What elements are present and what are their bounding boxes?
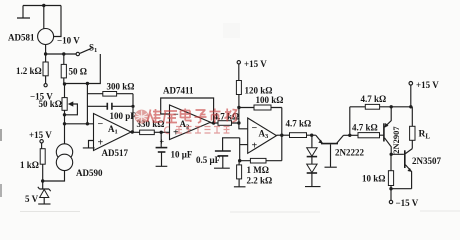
svg-text:4.7 kΩ: 4.7 kΩ — [352, 123, 378, 133]
node junction A2 feedback to output — [212, 121, 215, 124]
diode D1 — [307, 135, 317, 156]
svg-text:1 MΩ: 1 MΩ — [247, 165, 269, 175]
switch S1 — [65, 43, 101, 84]
wire feedback top rail — [87, 93, 133, 95]
svg-text:AD517: AD517 — [102, 148, 129, 158]
resistor 1 kOhm — [20, 143, 45, 181]
wire +15V to rail — [410, 85, 412, 107]
resistor 50 Ohm — [61, 54, 87, 84]
node junction rail right end — [409, 105, 412, 108]
svg-text:+: + — [98, 138, 104, 149]
terminal +15V (AD590 branch) — [29, 130, 52, 143]
voltage reference AD581 — [8, 29, 54, 45]
resistor 330 kOhm — [137, 119, 170, 135]
resistor 300 kOhm — [103, 82, 135, 97]
node junction A3 output — [280, 134, 283, 137]
wire A3 output — [277, 134, 290, 136]
watermark logo circle — [135, 110, 149, 124]
wire down to A1 input node — [64, 110, 66, 144]
terminal -15V (right) — [389, 189, 418, 208]
node junction top rail (2N2907 emitter) — [390, 105, 393, 108]
scan artifacts — [0, 23, 460, 213]
wire A1 output — [131, 131, 140, 133]
resistor 1 MOhm — [240, 158, 282, 175]
capacitor 100 pF — [87, 103, 136, 121]
wire AD581 bottom lead — [45, 45, 47, 55]
node junction switch wire to summing line — [86, 82, 89, 85]
node junction A2 out to A3 minus line — [237, 121, 240, 124]
capacitor 10 uF — [156, 132, 193, 166]
svg-text:4.7 kΩ: 4.7 kΩ — [286, 119, 312, 129]
node junction A1 output — [131, 130, 134, 133]
wire 2N2222 collector to rail tap — [344, 134, 359, 136]
node junction diode tap — [310, 134, 313, 137]
resistor 1.2 kOhm — [16, 54, 48, 83]
svg-text:2N3507: 2N3507 — [412, 156, 441, 166]
svg-text:100 pF: 100 pF — [110, 111, 137, 121]
ground (2N2222) — [325, 166, 337, 168]
op-amp A3 — [248, 118, 277, 153]
current source AD590 — [43, 144, 103, 181]
wire feedback right vertical — [132, 94, 134, 132]
svg-text:2N2907: 2N2907 — [391, 126, 401, 154]
node junction 10k tap — [390, 153, 393, 156]
resistor 4.7 kOhm (top rail) — [350, 94, 413, 109]
wire right loop to AD581 output — [54, 6, 61, 37]
resistor 4.7 kOhm (2N2907 base) — [352, 123, 384, 138]
capacitor 0.5 uF — [196, 138, 240, 168]
transistor Q3 2N3507 — [405, 149, 442, 189]
terminal +15V (middle) — [237, 59, 267, 69]
svg-text:120 kΩ: 120 kΩ — [245, 86, 273, 96]
wire feedback left vertical — [86, 84, 88, 124]
ground (diodes bottom) — [305, 173, 321, 187]
node junction A3 plus node — [238, 159, 241, 162]
node junction zener tap — [41, 179, 44, 182]
zener diode 5V — [25, 181, 51, 204]
ground (A1 plus input) — [83, 141, 95, 148]
node junction emitter return — [389, 187, 392, 190]
wire A2 output — [211, 122, 239, 124]
svg-text:+: + — [252, 141, 258, 152]
svg-text:1.2 kΩ: 1.2 kΩ — [16, 66, 42, 76]
resistor 10 kOhm — [362, 154, 394, 188]
wire A1 minus input — [65, 123, 94, 125]
wire lower rail — [46, 53, 76, 55]
wire A2 minus + feedback loop — [161, 98, 214, 123]
ground (top-left) — [17, 6, 30, 19]
wire 120k down to A3 minus — [239, 95, 248, 129]
resistor 4.7 kOhm (A3 output) — [286, 119, 316, 138]
svg-text:300 kΩ: 300 kΩ — [107, 82, 135, 92]
svg-text:+15 V: +15 V — [416, 80, 439, 90]
resistor 4.7 kOhm (A2 output) — [214, 112, 240, 126]
svg-text:100 kΩ: 100 kΩ — [256, 95, 284, 105]
terminal -15V (left) — [30, 84, 53, 102]
svg-text:−: − — [252, 123, 258, 134]
diode D2 — [307, 157, 317, 173]
svg-text:10 kΩ: 10 kΩ — [362, 174, 385, 184]
node junction wiper return — [63, 113, 66, 116]
ground (2.2k bottom) — [234, 186, 246, 188]
svg-text:−15 V: −15 V — [396, 198, 419, 208]
node junction 50-ohm tap — [62, 52, 65, 55]
wire AD581 top lead — [43, 6, 45, 30]
svg-text:50 Ω: 50 Ω — [69, 67, 87, 77]
svg-text:+15 V: +15 V — [29, 130, 52, 140]
node junction collector tap — [348, 134, 351, 137]
svg-text:AD590: AD590 — [76, 168, 103, 178]
svg-text:50 kΩ: 50 kΩ — [39, 99, 62, 109]
watermark text row1 — [148, 109, 237, 124]
wire feedback right vertical A3 — [281, 108, 283, 161]
node junction A1 minus node — [63, 122, 66, 125]
svg-text:−10 V: −10 V — [57, 36, 80, 46]
node junction 10uF tap — [160, 131, 163, 134]
svg-text:10 μF: 10 μF — [171, 150, 193, 160]
svg-text:0.5 μF: 0.5 μF — [196, 155, 221, 165]
wire top rail — [23, 5, 61, 7]
ground (zener bottom) — [38, 203, 50, 205]
transistor Q2 2N2907 — [384, 107, 401, 155]
node junction — [44, 52, 47, 55]
svg-text:AD7411: AD7411 — [163, 86, 194, 96]
node junction top rail — [42, 4, 45, 7]
resistor 2.2 kOhm — [237, 161, 273, 187]
svg-text:1 kΩ: 1 kΩ — [20, 160, 39, 170]
op-amp A2 — [163, 86, 211, 140]
node junction 100k tap — [237, 106, 240, 109]
transistor Q1 2N2222 — [316, 135, 365, 167]
resistor RL — [410, 107, 431, 149]
wire 2N2907 collector to 2N3507 base — [391, 153, 404, 155]
wire to potentiometer — [64, 84, 66, 98]
potentiometer 50 kOhm — [39, 98, 78, 115]
resistor 120 kOhm — [236, 64, 272, 96]
svg-text:5 V: 5 V — [25, 194, 39, 204]
node junction cap to output vertical — [131, 105, 134, 108]
terminal +15V (right) — [409, 80, 439, 90]
svg-text:2.2 kΩ: 2.2 kΩ — [247, 176, 273, 186]
node junction feedback tap — [86, 122, 89, 125]
svg-text:AD581: AD581 — [8, 33, 35, 43]
op-amp A1 — [94, 114, 132, 159]
wire 2N3507 emitter return — [391, 188, 412, 190]
wire A3 plus input — [240, 144, 248, 146]
svg-text:2N2222: 2N2222 — [335, 148, 364, 158]
resistor 100 kOhm (A3 feedback) — [239, 95, 284, 110]
node junction 50-ohm bottom — [63, 82, 66, 85]
svg-text:+: + — [160, 138, 165, 147]
wire vertical to top rail — [349, 107, 351, 136]
svg-text:−: − — [98, 119, 104, 130]
svg-text:+15 V: +15 V — [244, 59, 267, 69]
watermark text row2 — [165, 127, 230, 134]
svg-text:4.7 kΩ: 4.7 kΩ — [361, 94, 387, 104]
